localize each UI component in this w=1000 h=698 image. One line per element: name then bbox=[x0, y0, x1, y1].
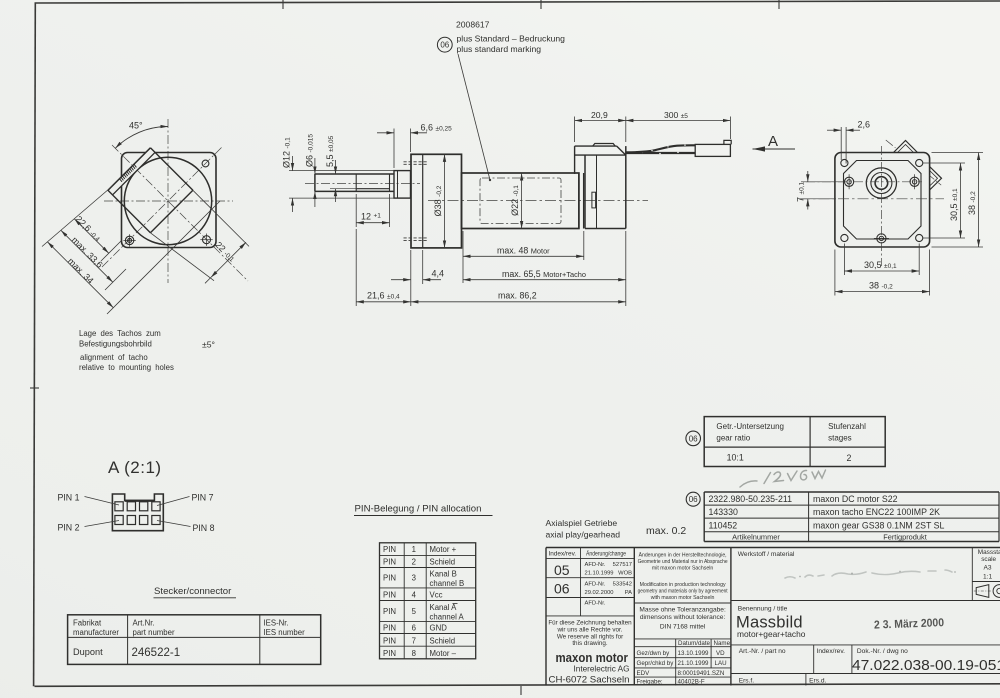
tacho corner protruding right bbox=[930, 167, 942, 191]
svg-text:PA: PA bbox=[625, 590, 632, 596]
svg-text:Kanal B: Kanal B bbox=[430, 570, 457, 579]
tacho diamond other edges bbox=[108, 148, 193, 233]
dim 5,5 bbox=[330, 160, 358, 202]
svg-text:5: 5 bbox=[412, 607, 417, 616]
svg-text:plus standard marking: plus standard marking bbox=[457, 44, 542, 54]
svg-text:06: 06 bbox=[689, 434, 698, 443]
centerline through threaded holes bbox=[806, 181, 922, 183]
svg-text:Änderung/change: Änderung/change bbox=[586, 550, 626, 558]
svg-text:Ers.f.: Ers.f. bbox=[739, 678, 755, 685]
svg-text:Modification in production tec: Modification in production technology bbox=[640, 582, 726, 588]
centerline diagonal TR-BL bbox=[101, 148, 222, 269]
dim diameter 6 bbox=[314, 158, 316, 207]
svg-text:533542: 533542 bbox=[613, 582, 632, 588]
svg-text:10:1: 10:1 bbox=[727, 453, 744, 463]
gear flange square bbox=[122, 153, 217, 248]
dim 7 +-0,1 bbox=[801, 171, 845, 210]
dim diameter 22 bbox=[521, 173, 523, 229]
svg-text:dimensons without tolerance:: dimensons without tolerance: bbox=[640, 614, 726, 621]
svg-text:06: 06 bbox=[440, 41, 449, 50]
svg-text:PIN: PIN bbox=[383, 574, 396, 583]
svg-text:A: A bbox=[768, 133, 778, 150]
svg-text:scale: scale bbox=[981, 556, 996, 563]
svg-text:Stufenzahl: Stufenzahl bbox=[828, 422, 866, 431]
index bubble 06 bbox=[437, 37, 452, 52]
svg-text:2008617: 2008617 bbox=[456, 20, 490, 30]
svg-text:Fabrikat: Fabrikat bbox=[73, 619, 102, 628]
svg-text:CH-6072 Sachseln: CH-6072 Sachseln bbox=[549, 675, 630, 685]
svg-text:PIN: PIN bbox=[383, 607, 396, 616]
motor end cap rings bbox=[579, 173, 584, 229]
extension line of diamond top-left edge bbox=[42, 186, 113, 247]
svg-text:A (2:1): A (2:1) bbox=[108, 458, 162, 477]
svg-text:EDV: EDV bbox=[637, 670, 651, 677]
svg-text:Dupont: Dupont bbox=[73, 647, 103, 657]
svg-text:maxon tacho ENC22 100IMP 2K: maxon tacho ENC22 100IMP 2K bbox=[813, 507, 940, 517]
threaded hole right bbox=[910, 174, 919, 189]
svg-text:527517: 527517 bbox=[613, 562, 632, 568]
svg-text:Art.-Nr. / part no: Art.-Nr. / part no bbox=[739, 648, 786, 655]
svg-text:Index/rev.: Index/rev. bbox=[549, 551, 577, 558]
svg-text:maxon motor: maxon motor bbox=[556, 650, 629, 665]
band hatch stripes bbox=[120, 164, 137, 182]
svg-text:Name: Name bbox=[714, 640, 731, 647]
hidden tapped holes (dashed) bbox=[404, 162, 428, 241]
gearhead flange + body bbox=[411, 154, 462, 248]
PIN allocation table bbox=[380, 543, 476, 659]
svg-text:Masse ohne Toleranzangabe:: Masse ohne Toleranzangabe: bbox=[639, 607, 726, 614]
svg-text:Index/rev.: Index/rev. bbox=[817, 648, 846, 655]
svg-text:13.10.1999: 13.10.1999 bbox=[678, 650, 710, 657]
motor centerline bbox=[428, 200, 648, 202]
overline on Kanal A (PIN 5) bbox=[453, 603, 458, 605]
centerline vertical bbox=[167, 119, 169, 283]
svg-text:Befestigungsbohrbild: Befestigungsbohrbild bbox=[79, 340, 152, 349]
threaded hole left bbox=[845, 174, 854, 189]
dimension 22,6 -0,4 bbox=[74, 214, 122, 261]
cable wire straight bbox=[626, 152, 695, 155]
svg-text:2322.980-50.235-211: 2322.980-50.235-211 bbox=[709, 494, 793, 504]
hole top-right bbox=[202, 160, 209, 167]
pin cavities row 2 bbox=[115, 516, 160, 525]
dim 12 +1 bbox=[356, 194, 389, 227]
svg-text:Interelectric AG: Interelectric AG bbox=[574, 665, 630, 674]
svg-text:8:00019491.SZN: 8:00019491.SZN bbox=[678, 670, 725, 677]
svg-text:AFD-Nr.: AFD-Nr. bbox=[585, 562, 606, 568]
svg-text:max. 0.2: max. 0.2 bbox=[646, 525, 686, 537]
leader PIN 1 bbox=[85, 497, 120, 506]
pin cavities row 1 bbox=[115, 502, 160, 511]
svg-text:Werkstoff / material: Werkstoff / material bbox=[738, 551, 795, 558]
svg-text:manufacturer: manufacturer bbox=[73, 628, 119, 637]
centerline vertical bbox=[880, 146, 882, 266]
dim diameter 12 bbox=[289, 156, 394, 212]
svg-text:with maxon motor Sachseln: with maxon motor Sachseln bbox=[651, 595, 715, 601]
svg-text:WOB: WOB bbox=[618, 571, 632, 577]
dim max. 65,5 Motor+Tacho bbox=[463, 231, 626, 306]
svg-text:Stecker/connector: Stecker/connector bbox=[154, 586, 232, 597]
svg-text:PIN: PIN bbox=[383, 545, 396, 554]
output shaft bbox=[315, 174, 394, 191]
leader PIN 2 bbox=[85, 521, 120, 527]
svg-text:part number: part number bbox=[133, 628, 175, 637]
svg-text:max. 48 Motor: max. 48 Motor bbox=[497, 246, 550, 256]
svg-text:143330: 143330 bbox=[709, 507, 738, 517]
svg-text:4: 4 bbox=[412, 591, 417, 600]
centerline horizontal (motor axis) bbox=[799, 198, 944, 200]
svg-text:1:1: 1:1 bbox=[983, 574, 992, 581]
hole bottom-right bbox=[200, 234, 212, 246]
svg-text:Motor +: Motor + bbox=[430, 545, 457, 554]
svg-text:PIN 1: PIN 1 bbox=[58, 493, 80, 503]
dim diameter 38 bbox=[444, 154, 446, 248]
svg-text:PIN 7: PIN 7 bbox=[192, 493, 214, 503]
motor circle bbox=[124, 157, 211, 244]
svg-text:maxon DC motor S22: maxon DC motor S22 bbox=[813, 494, 898, 504]
svg-text:Massstab: Massstab bbox=[978, 549, 1000, 556]
svg-text:alignment of tacho: alignment of tacho bbox=[80, 353, 148, 362]
svg-text:PIN 2: PIN 2 bbox=[58, 523, 80, 533]
svg-text:21.10.1999: 21.10.1999 bbox=[678, 660, 710, 667]
svg-text:Schield: Schield bbox=[430, 558, 456, 567]
svg-text:8: 8 bbox=[412, 649, 416, 658]
svg-text:mit maxon motor Sachseln: mit maxon motor Sachseln bbox=[652, 566, 714, 572]
svg-text:VD: VD bbox=[716, 650, 725, 657]
svg-text:06: 06 bbox=[689, 495, 698, 504]
connector body bbox=[112, 494, 163, 531]
dim 6,6 bbox=[377, 129, 427, 169]
svg-text:PIN 8: PIN 8 bbox=[193, 523, 215, 533]
tolerance note bbox=[639, 607, 726, 631]
section arrow A bbox=[753, 133, 796, 152]
svg-text:plus Standard – Bedruckung: plus Standard – Bedruckung bbox=[457, 34, 566, 44]
svg-text:IES-Nr.: IES-Nr. bbox=[264, 619, 289, 628]
svg-text:A3: A3 bbox=[984, 565, 992, 572]
leader PIN 7 bbox=[157, 497, 190, 506]
svg-text:1: 1 bbox=[412, 545, 416, 554]
dim 38 right bbox=[932, 153, 984, 248]
handwritten 12V 6W bbox=[740, 470, 826, 487]
dim 300 +-5 bbox=[626, 117, 731, 140]
svg-text:this drawing.: this drawing. bbox=[572, 640, 608, 647]
svg-text:Für diese Zeichnung behalten: Für diese Zeichnung behalten bbox=[548, 620, 632, 627]
svg-text:2: 2 bbox=[847, 453, 852, 463]
svg-text:29.02.2000: 29.02.2000 bbox=[585, 590, 614, 596]
svg-text:Geometrie und Material nur in: Geometrie und Material nur in Absprache bbox=[638, 559, 728, 565]
svg-text:Schield: Schield bbox=[430, 636, 456, 645]
svg-text:3: 3 bbox=[412, 574, 416, 583]
connector housing bbox=[695, 144, 730, 156]
connector latch tab bbox=[724, 140, 731, 144]
fold tick marks bbox=[30, 0, 779, 695]
svg-text:Lage des Tachos zum: Lage des Tachos zum bbox=[79, 329, 161, 338]
svg-text:21.10.1999: 21.10.1999 bbox=[585, 571, 614, 577]
svg-text:05: 05 bbox=[554, 562, 570, 578]
svg-text:Getr.-Untersetzung: Getr.-Untersetzung bbox=[716, 422, 784, 431]
tacho side label rect bbox=[592, 192, 596, 208]
svg-text:Benennung / title: Benennung / title bbox=[738, 606, 788, 613]
svg-text:20,9: 20,9 bbox=[591, 110, 608, 120]
dim 21,6 bbox=[356, 229, 411, 306]
centerline diagonal TL-BR bbox=[112, 145, 248, 281]
svg-text:45°: 45° bbox=[129, 121, 143, 131]
title block grid bbox=[546, 548, 1000, 686]
svg-text:stages: stages bbox=[828, 434, 852, 443]
central boss circles bbox=[866, 168, 896, 198]
index bubble 06 at gear table bbox=[686, 431, 701, 446]
svg-text:IES number: IES number bbox=[264, 628, 306, 637]
svg-text:Kanal A: Kanal A bbox=[430, 603, 458, 612]
svg-text:PIN-Belegung / PIN allocation: PIN-Belegung / PIN allocation bbox=[355, 504, 482, 515]
svg-text:channel A: channel A bbox=[430, 612, 465, 621]
svg-text:PIN: PIN bbox=[383, 624, 396, 633]
svg-text:PIN: PIN bbox=[383, 591, 396, 600]
svg-text:PIN: PIN bbox=[383, 649, 396, 658]
tacho top flange bbox=[575, 144, 626, 175]
svg-text:LAU: LAU bbox=[715, 660, 727, 667]
svg-text:Axialspiel Getriebe: Axialspiel Getriebe bbox=[546, 518, 618, 528]
svg-text:2: 2 bbox=[412, 558, 416, 567]
leader to marking area bbox=[458, 54, 490, 180]
dimension 22 -0,1 bbox=[205, 240, 246, 284]
svg-text:Gez/dwn by: Gez/dwn by bbox=[637, 650, 671, 657]
svg-text:gear ratio: gear ratio bbox=[716, 434, 750, 443]
change notes german bbox=[638, 552, 729, 602]
svg-text:channel B: channel B bbox=[430, 579, 465, 588]
svg-text:246522-1: 246522-1 bbox=[132, 647, 181, 659]
svg-text:AFD-Nr.: AFD-Nr. bbox=[585, 582, 606, 588]
tacho corner protruding top bbox=[894, 141, 918, 153]
threaded hole bottom bbox=[874, 234, 889, 243]
svg-text:Freigabe:: Freigabe: bbox=[637, 679, 663, 686]
svg-text:Vcc: Vcc bbox=[430, 591, 443, 600]
svg-text:Motor –: Motor – bbox=[430, 649, 457, 658]
dim 38 bottom bbox=[835, 250, 930, 296]
dim 20,9 bbox=[575, 117, 626, 143]
connector table bbox=[68, 615, 321, 665]
dim max. 86,2 bbox=[411, 301, 626, 303]
centerline diagonal 45 (visible part outside square) bbox=[886, 140, 896, 148]
dim 30,5 bottom bbox=[844, 244, 919, 276]
index bubble 06 at parts table bbox=[686, 492, 700, 506]
date stamp bbox=[874, 617, 944, 631]
svg-text:40402B-F: 40402B-F bbox=[678, 679, 705, 686]
svg-text:Dok.-Nr. / dwg no: Dok.-Nr. / dwg no bbox=[857, 648, 908, 655]
dimension max. 33,6 bbox=[61, 230, 126, 290]
faint handwriting smudge bbox=[785, 570, 952, 578]
svg-text:PIN: PIN bbox=[383, 636, 396, 645]
cable wire rising bbox=[626, 145, 695, 152]
svg-text:110452: 110452 bbox=[709, 520, 738, 530]
centerline horizontal bbox=[104, 200, 233, 202]
svg-text:wir uns alle Rechte vor.: wir uns alle Rechte vor. bbox=[556, 627, 622, 634]
45 deg arc dimension bbox=[115, 126, 168, 148]
svg-text:Artikelnummer: Artikelnummer bbox=[732, 532, 780, 541]
svg-text:relative to mounting holes: relative to mounting holes bbox=[79, 363, 174, 372]
svg-text:Datum/date: Datum/date bbox=[678, 640, 711, 647]
svg-text:GND: GND bbox=[430, 624, 448, 633]
rights note bbox=[548, 620, 632, 648]
hole bottom-left bbox=[123, 234, 135, 246]
svg-text:maxon gear GS38 0.1NM 2ST SL: maxon gear GS38 0.1NM 2ST SL bbox=[813, 520, 944, 530]
flange square bbox=[835, 153, 930, 248]
svg-text:max. 86,2: max. 86,2 bbox=[498, 291, 537, 301]
shaft collar bbox=[394, 171, 411, 199]
leader PIN 8 bbox=[157, 521, 191, 527]
svg-text:Änderungen in der Herstelltech: Änderungen in der Herstelltechnologie, bbox=[639, 552, 727, 559]
svg-text:7: 7 bbox=[412, 636, 416, 645]
svg-text:AFD-Nr.: AFD-Nr. bbox=[585, 601, 606, 607]
svg-text:2 3. März 2000: 2 3. März 2000 bbox=[874, 617, 944, 631]
svg-text:PIN: PIN bbox=[383, 558, 396, 567]
dim 2,6 bbox=[827, 127, 860, 164]
svg-text:2,6: 2,6 bbox=[858, 120, 871, 130]
corner holes bbox=[841, 159, 923, 241]
gear ratio table bbox=[704, 417, 885, 467]
svg-text:4,4: 4,4 bbox=[432, 269, 445, 279]
projection symbol bbox=[974, 585, 1000, 598]
shaft centerline bbox=[305, 182, 420, 184]
svg-text:06: 06 bbox=[554, 581, 570, 597]
dim 4,4 bbox=[391, 250, 441, 284]
inner contour octagon bbox=[844, 161, 922, 240]
svg-text:axial play/gearhead: axial play/gearhead bbox=[546, 530, 621, 540]
svg-text:±5°: ±5° bbox=[202, 340, 215, 350]
dim max. 48 Motor bbox=[463, 231, 584, 283]
svg-text:Art.Nr.: Art.Nr. bbox=[133, 619, 155, 628]
parts list table bbox=[704, 492, 999, 542]
svg-text:47.022.038-00.19-051: 47.022.038-00.19-051 bbox=[852, 657, 1000, 674]
tacho body bbox=[585, 146, 626, 228]
motor body bbox=[462, 173, 579, 229]
svg-text:Gepr/chkd by: Gepr/chkd by bbox=[637, 660, 675, 667]
dim 30,5 right bbox=[923, 163, 965, 238]
svg-text:Ers.d.: Ers.d. bbox=[809, 678, 826, 685]
dimension max. 34 bbox=[47, 201, 220, 314]
svg-text:max. 65,5 Motor+Tacho: max. 65,5 Motor+Tacho bbox=[502, 269, 586, 279]
tacho diamond band (top-left edge) bbox=[108, 148, 155, 195]
svg-text:6: 6 bbox=[412, 624, 416, 633]
svg-text:Fertigprodukt: Fertigprodukt bbox=[883, 532, 927, 541]
svg-text:motor+gear+tacho: motor+gear+tacho bbox=[737, 629, 806, 639]
svg-text:DIN 7168 mittel: DIN 7168 mittel bbox=[660, 624, 706, 631]
svg-text:geometry and materials only by: geometry and materials only by agreement bbox=[638, 589, 729, 595]
marking area (chain line box) bbox=[480, 178, 561, 224]
